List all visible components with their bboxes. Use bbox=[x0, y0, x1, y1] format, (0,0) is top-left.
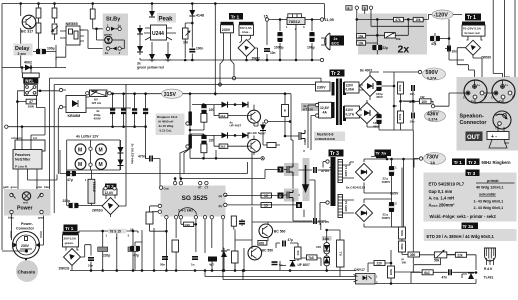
terminal KBU bottom bbox=[59, 105, 62, 108]
fan M4 bbox=[96, 159, 107, 170]
svg-text:2-: 2- bbox=[512, 95, 515, 99]
svg-text:sekundär: sekundär bbox=[479, 192, 496, 196]
svg-text:220k: 220k bbox=[389, 268, 393, 275]
svg-text:0,37A: 0,37A bbox=[427, 76, 437, 80]
svg-text:5n: 5n bbox=[279, 263, 283, 267]
IC NE555 bbox=[60, 26, 84, 45]
resistor 4k7 bbox=[422, 270, 433, 275]
resistor 3k3 b bbox=[399, 241, 406, 252]
svg-text:50Hz Ringkern: 50Hz Ringkern bbox=[482, 160, 512, 165]
capacitor 10n bbox=[448, 46, 450, 52]
LED D-fan2 bbox=[118, 160, 124, 166]
bridge SiC lower bbox=[355, 204, 372, 221]
svg-text:1+: 1+ bbox=[505, 83, 509, 87]
svg-text:47µ: 47µ bbox=[67, 178, 73, 182]
wire gate row1 bbox=[192, 105, 258, 130]
svg-text:RT: RT bbox=[198, 185, 202, 189]
svg-text:Tr 1: Tr 1 bbox=[467, 15, 476, 21]
svg-text:325V 1A: 325V 1A bbox=[344, 201, 348, 212]
verticals from SG3525 to bus bbox=[142, 207, 252, 271]
vertical KBU return bbox=[58, 108, 59, 174]
svg-text:78S12: 78S12 bbox=[92, 182, 96, 192]
svg-text:BC 317: BC 317 bbox=[21, 30, 33, 34]
winding bar 230V bbox=[221, 22, 234, 25]
resistor 15 b bbox=[261, 203, 272, 208]
svg-text:4x Lüfter 12V: 4x Lüfter 12V bbox=[76, 135, 99, 139]
svg-text:1+: 1+ bbox=[477, 83, 481, 87]
connector pins StBy bottom bbox=[106, 47, 109, 50]
wires lower caps bbox=[379, 119, 413, 130]
svg-text:0,06A: 0,06A bbox=[346, 88, 355, 92]
resistor 15 a bbox=[261, 193, 272, 198]
svg-text:2k2: 2k2 bbox=[220, 114, 225, 118]
svg-text:Passives: Passives bbox=[15, 153, 30, 157]
capacitor 100u 450V a bbox=[376, 81, 381, 91]
svg-text:15: 15 bbox=[227, 248, 231, 252]
speaker box bbox=[487, 125, 509, 148]
wire right vert x126 bbox=[125, 84, 127, 104]
bridge 2W02G bottom bbox=[64, 249, 81, 266]
terminal 15 bbox=[265, 18, 268, 21]
wires inside panel bbox=[366, 19, 409, 54]
wires netzfilter bbox=[18, 140, 57, 189]
svg-text:220: 220 bbox=[377, 262, 383, 266]
label Mosfet 6-8 bbox=[314, 132, 345, 142]
svg-text:Wickl.-Folge: sek1 - primär -: Wickl.-Folge: sek1 - primär - sek2 bbox=[430, 214, 497, 219]
svg-text:15: 15 bbox=[264, 14, 268, 18]
diode 4007 mid bbox=[260, 125, 266, 131]
svg-text:ETD 29 / Aₗ 380nH / 44 Wdg: ETD 29 / Aₗ 380nH / 44 Wdg 60x0,1 bbox=[427, 234, 495, 239]
svg-text:CNY17: CNY17 bbox=[354, 268, 365, 272]
label Peak bbox=[157, 13, 176, 23]
potentiometer 1M bbox=[183, 23, 191, 58]
verticals from ringkern windings bbox=[160, 149, 216, 189]
bridge KBU8M bbox=[66, 96, 86, 113]
svg-text:47k: 47k bbox=[395, 18, 401, 22]
capacitor 47p bbox=[128, 247, 139, 258]
resistor R-delay1 bbox=[36, 8, 41, 18]
connector circle 230V bbox=[13, 232, 40, 259]
svg-text:(a): (a) bbox=[219, 194, 223, 198]
svg-text:Netzfilter: Netzfilter bbox=[15, 158, 31, 162]
wire NE555 outputs right bbox=[56, 19, 106, 68]
fan wiring frame bbox=[67, 140, 120, 170]
wire left edge vertical bbox=[1, 4, 3, 251]
svg-text:450V: 450V bbox=[94, 117, 102, 121]
wire lower-left horizontal bbox=[2, 67, 66, 69]
fan M2 bbox=[96, 144, 107, 155]
box Passives Netzfilter bbox=[13, 150, 42, 170]
svg-text:125 A/s: 125 A/s bbox=[92, 101, 102, 105]
resistor 47 25W bbox=[26, 99, 36, 108]
svg-text:green yellow red: green yellow red bbox=[137, 66, 164, 70]
svg-text:Out: Out bbox=[164, 187, 169, 191]
resistor R-stby top bbox=[90, 9, 95, 19]
resistor RT vert bbox=[231, 216, 236, 226]
svg-text:2x 16LED-blau: 2x 16LED-blau bbox=[131, 144, 135, 165]
svg-text:390: 390 bbox=[410, 253, 416, 257]
svg-text:Power-: Power- bbox=[21, 222, 34, 226]
svg-text:3 sec: 3 sec bbox=[18, 52, 27, 56]
svg-text:Tr 3: Tr 3 bbox=[330, 151, 339, 157]
svg-text:brown red: brown red bbox=[465, 31, 480, 35]
svg-text:Gap 0,1 mm: Gap 0,1 mm bbox=[429, 189, 453, 194]
svg-text:8: 8 bbox=[298, 203, 301, 208]
wire 315V rail bbox=[86, 92, 291, 95]
resistor 3k3 a bbox=[399, 227, 406, 239]
secondary 120V box bbox=[345, 82, 360, 93]
svg-text:220: 220 bbox=[209, 108, 215, 112]
wire gate line C bbox=[180, 170, 278, 179]
panel speakon bbox=[457, 77, 518, 151]
svg-text:SG 3525: SG 3525 bbox=[182, 195, 208, 202]
arrow to chassis bbox=[23, 259, 30, 269]
svg-text:Tr 3: Tr 3 bbox=[467, 171, 476, 176]
secondary box 70+20V bbox=[462, 25, 485, 36]
svg-text:4A: 4A bbox=[323, 111, 328, 115]
transistor BC550 bbox=[248, 246, 262, 260]
capacitor 22u 160PV up bbox=[389, 166, 394, 176]
tag Tr 1 bottom bbox=[64, 225, 78, 232]
svg-text:100n: 100n bbox=[196, 47, 203, 51]
wires 310V to bridge bbox=[360, 100, 380, 127]
svg-text:220: 220 bbox=[209, 139, 215, 143]
zener limiter box bbox=[324, 256, 330, 266]
mosfet Q lower bbox=[225, 152, 299, 205]
svg-text:365V: 365V bbox=[390, 192, 399, 196]
svg-text:Tr 2: Tr 2 bbox=[331, 71, 340, 77]
svg-text:Ringkern 10x1: Ringkern 10x1 bbox=[157, 115, 178, 119]
svg-text:100: 100 bbox=[422, 100, 428, 104]
tag 2x ECC bbox=[330, 36, 344, 46]
svg-text:78S12: 78S12 bbox=[289, 19, 301, 24]
capacitor 100u 450V b bbox=[376, 114, 381, 124]
heater label 4x KT 120 bbox=[301, 103, 319, 111]
wires mosfet area bbox=[263, 94, 305, 145]
svg-text:47µ: 47µ bbox=[431, 42, 437, 46]
wire left edge to connector bbox=[2, 214, 44, 251]
tag Tr 2 small bbox=[105, 184, 117, 190]
regulator 78S12 vertical bbox=[85, 178, 96, 203]
resistor R-delay2 bbox=[52, 8, 57, 18]
pin 1a bbox=[40, 210, 43, 213]
svg-text:1000µ: 1000µ bbox=[274, 46, 284, 50]
tag Tr 3 center bbox=[466, 170, 480, 177]
wire 590V output bbox=[383, 72, 418, 130]
svg-text:8x C4D42120: 8x C4D42120 bbox=[346, 186, 365, 190]
LEDs bottom pair bbox=[149, 54, 155, 60]
capacitor 5n b bbox=[272, 262, 278, 264]
freq arc bbox=[178, 208, 196, 216]
rail vertical 413 bbox=[412, 130, 414, 264]
capacitor elco 16v bbox=[130, 246, 140, 251]
capacitor 220u fans bbox=[69, 203, 79, 208]
panel Power bbox=[4, 189, 51, 216]
secondary 20V box bbox=[63, 235, 79, 247]
svg-text:ECC: ECC bbox=[332, 42, 340, 46]
tag Tr 1 legend bbox=[452, 159, 465, 166]
wires 7812 bbox=[267, 20, 320, 61]
resistor 220k lower bbox=[398, 111, 404, 123]
svg-text:red: red bbox=[23, 201, 28, 205]
wire feedback bottom bus bbox=[374, 272, 476, 284]
svg-text:12,6V: 12,6V bbox=[104, 191, 114, 195]
wire gate line B bbox=[60, 150, 248, 174]
svg-text:230V: 230V bbox=[222, 28, 231, 32]
diode D 4002 bbox=[25, 65, 31, 71]
svg-text:ff: ff bbox=[283, 110, 287, 112]
transformer Tr3 tag bbox=[329, 150, 344, 158]
svg-text:OUT: OUT bbox=[467, 135, 480, 141]
inductor L1 bbox=[186, 112, 192, 126]
svg-text:470: 470 bbox=[259, 241, 265, 245]
bridge SiC upper bbox=[355, 163, 372, 180]
svg-text:2W02G: 2W02G bbox=[92, 209, 103, 213]
potentiometer 50k bbox=[385, 32, 401, 41]
svg-text:C2M0281120D: C2M0281120D bbox=[315, 137, 336, 141]
capacitor 220p bbox=[98, 247, 111, 258]
svg-text:330k: 330k bbox=[400, 229, 404, 236]
terminals Tr3 bbox=[326, 160, 329, 163]
bridge 2W02G fans bbox=[102, 198, 119, 215]
svg-text:2x: 2x bbox=[334, 37, 338, 41]
lamp red bbox=[22, 192, 30, 205]
svg-text:590V: 590V bbox=[426, 70, 439, 76]
resistor 470 horiz bbox=[258, 241, 267, 246]
svg-text:P Line N: P Line N bbox=[15, 165, 27, 169]
capacitor 50n bbox=[162, 257, 168, 259]
pins SG right bbox=[224, 193, 227, 196]
wire gate row2 bbox=[192, 135, 254, 156]
wire top drop x215 bbox=[214, 4, 216, 96]
speakon connector 3 bbox=[493, 111, 511, 130]
speakon connector 2 bbox=[491, 80, 515, 103]
svg-text:2k2: 2k2 bbox=[220, 145, 225, 149]
svg-text:78 S 15: 78 S 15 bbox=[110, 230, 122, 234]
info box Tr3 bbox=[424, 173, 517, 222]
bridge rectifier 2W0 top bbox=[238, 40, 255, 57]
svg-text:Chassis: Chassis bbox=[18, 270, 36, 275]
wire bottom main bus bbox=[70, 270, 356, 272]
tag Tr 2 bbox=[330, 70, 345, 78]
capacitor 47n bbox=[449, 269, 451, 275]
pins SG left bbox=[159, 186, 162, 189]
svg-text:2W020: 2W020 bbox=[481, 56, 491, 60]
capacitor 470n up bbox=[314, 167, 316, 173]
resistor 10k vert bbox=[172, 240, 179, 252]
svg-text:2- 43 Wdg 60x0,1: 2- 43 Wdg 60x0,1 bbox=[474, 206, 504, 210]
capacitor 10n upper bbox=[412, 85, 414, 91]
core Tr2 bbox=[332, 79, 347, 126]
pin 2a bbox=[10, 210, 13, 213]
primary box 230V bbox=[316, 82, 331, 91]
wires 120V to bridge bbox=[359, 72, 394, 100]
diode row1 a bbox=[222, 102, 228, 108]
chassis circle bbox=[16, 260, 38, 282]
svg-text:9: 9 bbox=[279, 194, 282, 199]
svg-text:10n: 10n bbox=[410, 120, 415, 124]
svg-text:Connector: Connector bbox=[460, 120, 488, 126]
svg-text:310V: 310V bbox=[346, 108, 354, 112]
label Delay 3 sec bbox=[14, 44, 33, 56]
wires -120V area bbox=[435, 15, 464, 61]
capacitor 22u bbox=[372, 45, 382, 50]
svg-text:2-: 2- bbox=[484, 95, 487, 99]
connector housing bbox=[11, 231, 41, 238]
resistor 47k bbox=[394, 17, 404, 22]
terminal mid bbox=[264, 120, 267, 123]
capacitor 220 r1 bbox=[201, 104, 206, 114]
svg-text:Tr 1: Tr 1 bbox=[231, 14, 240, 20]
pins SG top bbox=[173, 181, 176, 184]
svg-text:M: M bbox=[99, 147, 103, 153]
svg-text:a: a bbox=[348, 7, 350, 11]
svg-text:Tr 1: Tr 1 bbox=[65, 226, 74, 231]
pin 2 bbox=[10, 193, 13, 196]
fuse HV 125 A/s bbox=[90, 90, 108, 105]
resistor 1k left bbox=[146, 206, 166, 231]
svg-text:1-: 1- bbox=[491, 96, 494, 100]
svg-text:22k: 22k bbox=[457, 253, 463, 257]
diode UF4007 bbox=[290, 261, 296, 267]
svg-text:47: 47 bbox=[29, 100, 33, 104]
capacitor 1000u bbox=[277, 32, 282, 42]
svg-text:10k: 10k bbox=[415, 18, 421, 22]
secondary box 70V bbox=[239, 25, 254, 36]
svg-text:1n: 1n bbox=[191, 263, 195, 267]
tag Tr 1 right bbox=[465, 14, 481, 22]
resistor vert r2 bbox=[201, 144, 207, 153]
wire drops from top bus bbox=[21, 4, 93, 68]
right edge verticals bbox=[493, 0, 515, 93]
svg-text:R A K: R A K bbox=[484, 267, 493, 271]
wire drops bbox=[140, 4, 192, 63]
svg-text:100: 100 bbox=[316, 245, 321, 249]
svg-text:10k: 10k bbox=[296, 250, 300, 255]
resistor 1/2k box bbox=[184, 222, 194, 227]
svg-text:NE555: NE555 bbox=[66, 21, 79, 26]
svg-text:(b): (b) bbox=[219, 204, 223, 208]
svg-text:11,05: 11,05 bbox=[325, 18, 334, 22]
resistor 10k b bbox=[295, 247, 302, 259]
wires inductors bbox=[190, 94, 204, 135]
svg-text:100µ: 100µ bbox=[47, 47, 55, 51]
svg-text:16: 16 bbox=[130, 228, 134, 232]
resistor 2k2 b bbox=[307, 255, 318, 260]
wires relay area bbox=[17, 91, 59, 140]
svg-text:2+: 2+ bbox=[499, 99, 503, 103]
svg-text:315V: 315V bbox=[164, 92, 177, 98]
svg-text:Connector: Connector bbox=[16, 227, 35, 231]
connector pins StBy top bbox=[106, 27, 109, 30]
svg-text:15: 15 bbox=[264, 194, 268, 198]
svg-text:Tr 1: Tr 1 bbox=[454, 160, 463, 165]
resistor vert r1 bbox=[201, 114, 207, 123]
svg-text:blau: blau bbox=[44, 185, 50, 189]
fan M1 bbox=[75, 144, 86, 155]
label 730V 1A bbox=[419, 157, 422, 160]
svg-text:St.By: St.By bbox=[106, 17, 121, 23]
svg-text:C2: C2 bbox=[393, 201, 397, 205]
rail 15V bbox=[79, 231, 138, 271]
svg-text:gelb: gelb bbox=[3, 185, 9, 189]
svg-text:7k5: 7k5 bbox=[308, 256, 314, 260]
resistor 1W 100 bbox=[420, 95, 432, 104]
resistor 2k2 r2 bbox=[219, 144, 228, 149]
svg-text:10k: 10k bbox=[358, 34, 364, 38]
svg-text:grün: grün bbox=[36, 185, 43, 189]
svg-text:4007: 4007 bbox=[259, 132, 266, 136]
fan M3 bbox=[75, 159, 86, 170]
wire mid horizontal y60 bbox=[140, 59, 322, 61]
svg-text:330k: 330k bbox=[400, 243, 404, 250]
LED column left bbox=[137, 28, 143, 34]
winding sec2 bbox=[338, 195, 348, 218]
resistor 10k c bbox=[413, 17, 423, 22]
regulator 78 S 15 bbox=[106, 229, 130, 240]
capacitor bank 4x150u bbox=[110, 92, 148, 128]
diode row1 b bbox=[242, 102, 248, 108]
diode row2 a bbox=[222, 132, 228, 138]
label -120V bbox=[432, 10, 453, 19]
capacitor 10n lower bbox=[412, 113, 414, 119]
svg-text:325V 1A: 325V 1A bbox=[344, 166, 348, 177]
svg-text:green: green bbox=[104, 32, 112, 36]
core Tr3 bbox=[331, 157, 336, 206]
wire lower rail y127 bbox=[8, 127, 146, 140]
capacitor C-delay 100u bbox=[36, 49, 46, 54]
svg-text:0,17A: 0,17A bbox=[346, 113, 355, 117]
svg-text:Lim: Lim bbox=[323, 237, 329, 241]
svg-text:M: M bbox=[99, 162, 103, 168]
input terminal a bbox=[346, 6, 352, 11]
svg-text:UP 4007: UP 4007 bbox=[230, 124, 242, 128]
regulator 78S12 bbox=[286, 14, 305, 31]
svg-text:-green-: -green- bbox=[64, 241, 74, 245]
svg-text:4002: 4002 bbox=[24, 61, 32, 65]
capacitor 10n b bbox=[88, 258, 94, 260]
svg-text:47n: 47n bbox=[442, 276, 448, 280]
mosfet tags 7 9 8 bbox=[278, 167, 284, 173]
svg-text:1a: 1a bbox=[118, 23, 122, 27]
svg-text:BC 550: BC 550 bbox=[262, 249, 274, 253]
capacitor 4u7 bbox=[208, 257, 217, 267]
svg-text:Aₗ ca. 1,4 mH: Aₗ ca. 1,4 mH bbox=[429, 195, 455, 200]
secondary 310V box bbox=[345, 106, 360, 118]
info box Tr3a bbox=[424, 229, 517, 241]
label 436V bbox=[425, 110, 446, 121]
tag REL bbox=[23, 78, 38, 84]
resistor 47k vert bbox=[232, 251, 239, 263]
capacitor 470n input bbox=[150, 156, 152, 162]
svg-text:2W02G: 2W02G bbox=[59, 267, 70, 271]
diode 4148 bbox=[189, 10, 195, 16]
junction box above REL bbox=[22, 73, 39, 78]
TO92 package TL431 bbox=[484, 248, 496, 280]
svg-text:1- 43 Wdg 60x0,1: 1- 43 Wdg 60x0,1 bbox=[474, 199, 504, 203]
resistor 2k2 r1 bbox=[219, 113, 228, 118]
svg-text:CT: CT bbox=[205, 185, 209, 189]
heater box 12,6V 4A bbox=[319, 102, 332, 118]
potentiometer P1 bbox=[52, 24, 57, 34]
bridge 8x4007 top bbox=[360, 76, 381, 97]
svg-text:15: 15 bbox=[264, 204, 268, 208]
svg-text:1W: 1W bbox=[402, 261, 407, 265]
resistor 10k h2 bbox=[357, 41, 366, 46]
wire opto feed lines bbox=[205, 271, 356, 280]
LED D-fan1 bbox=[118, 147, 124, 153]
resistor R-delay3 bbox=[36, 23, 41, 33]
